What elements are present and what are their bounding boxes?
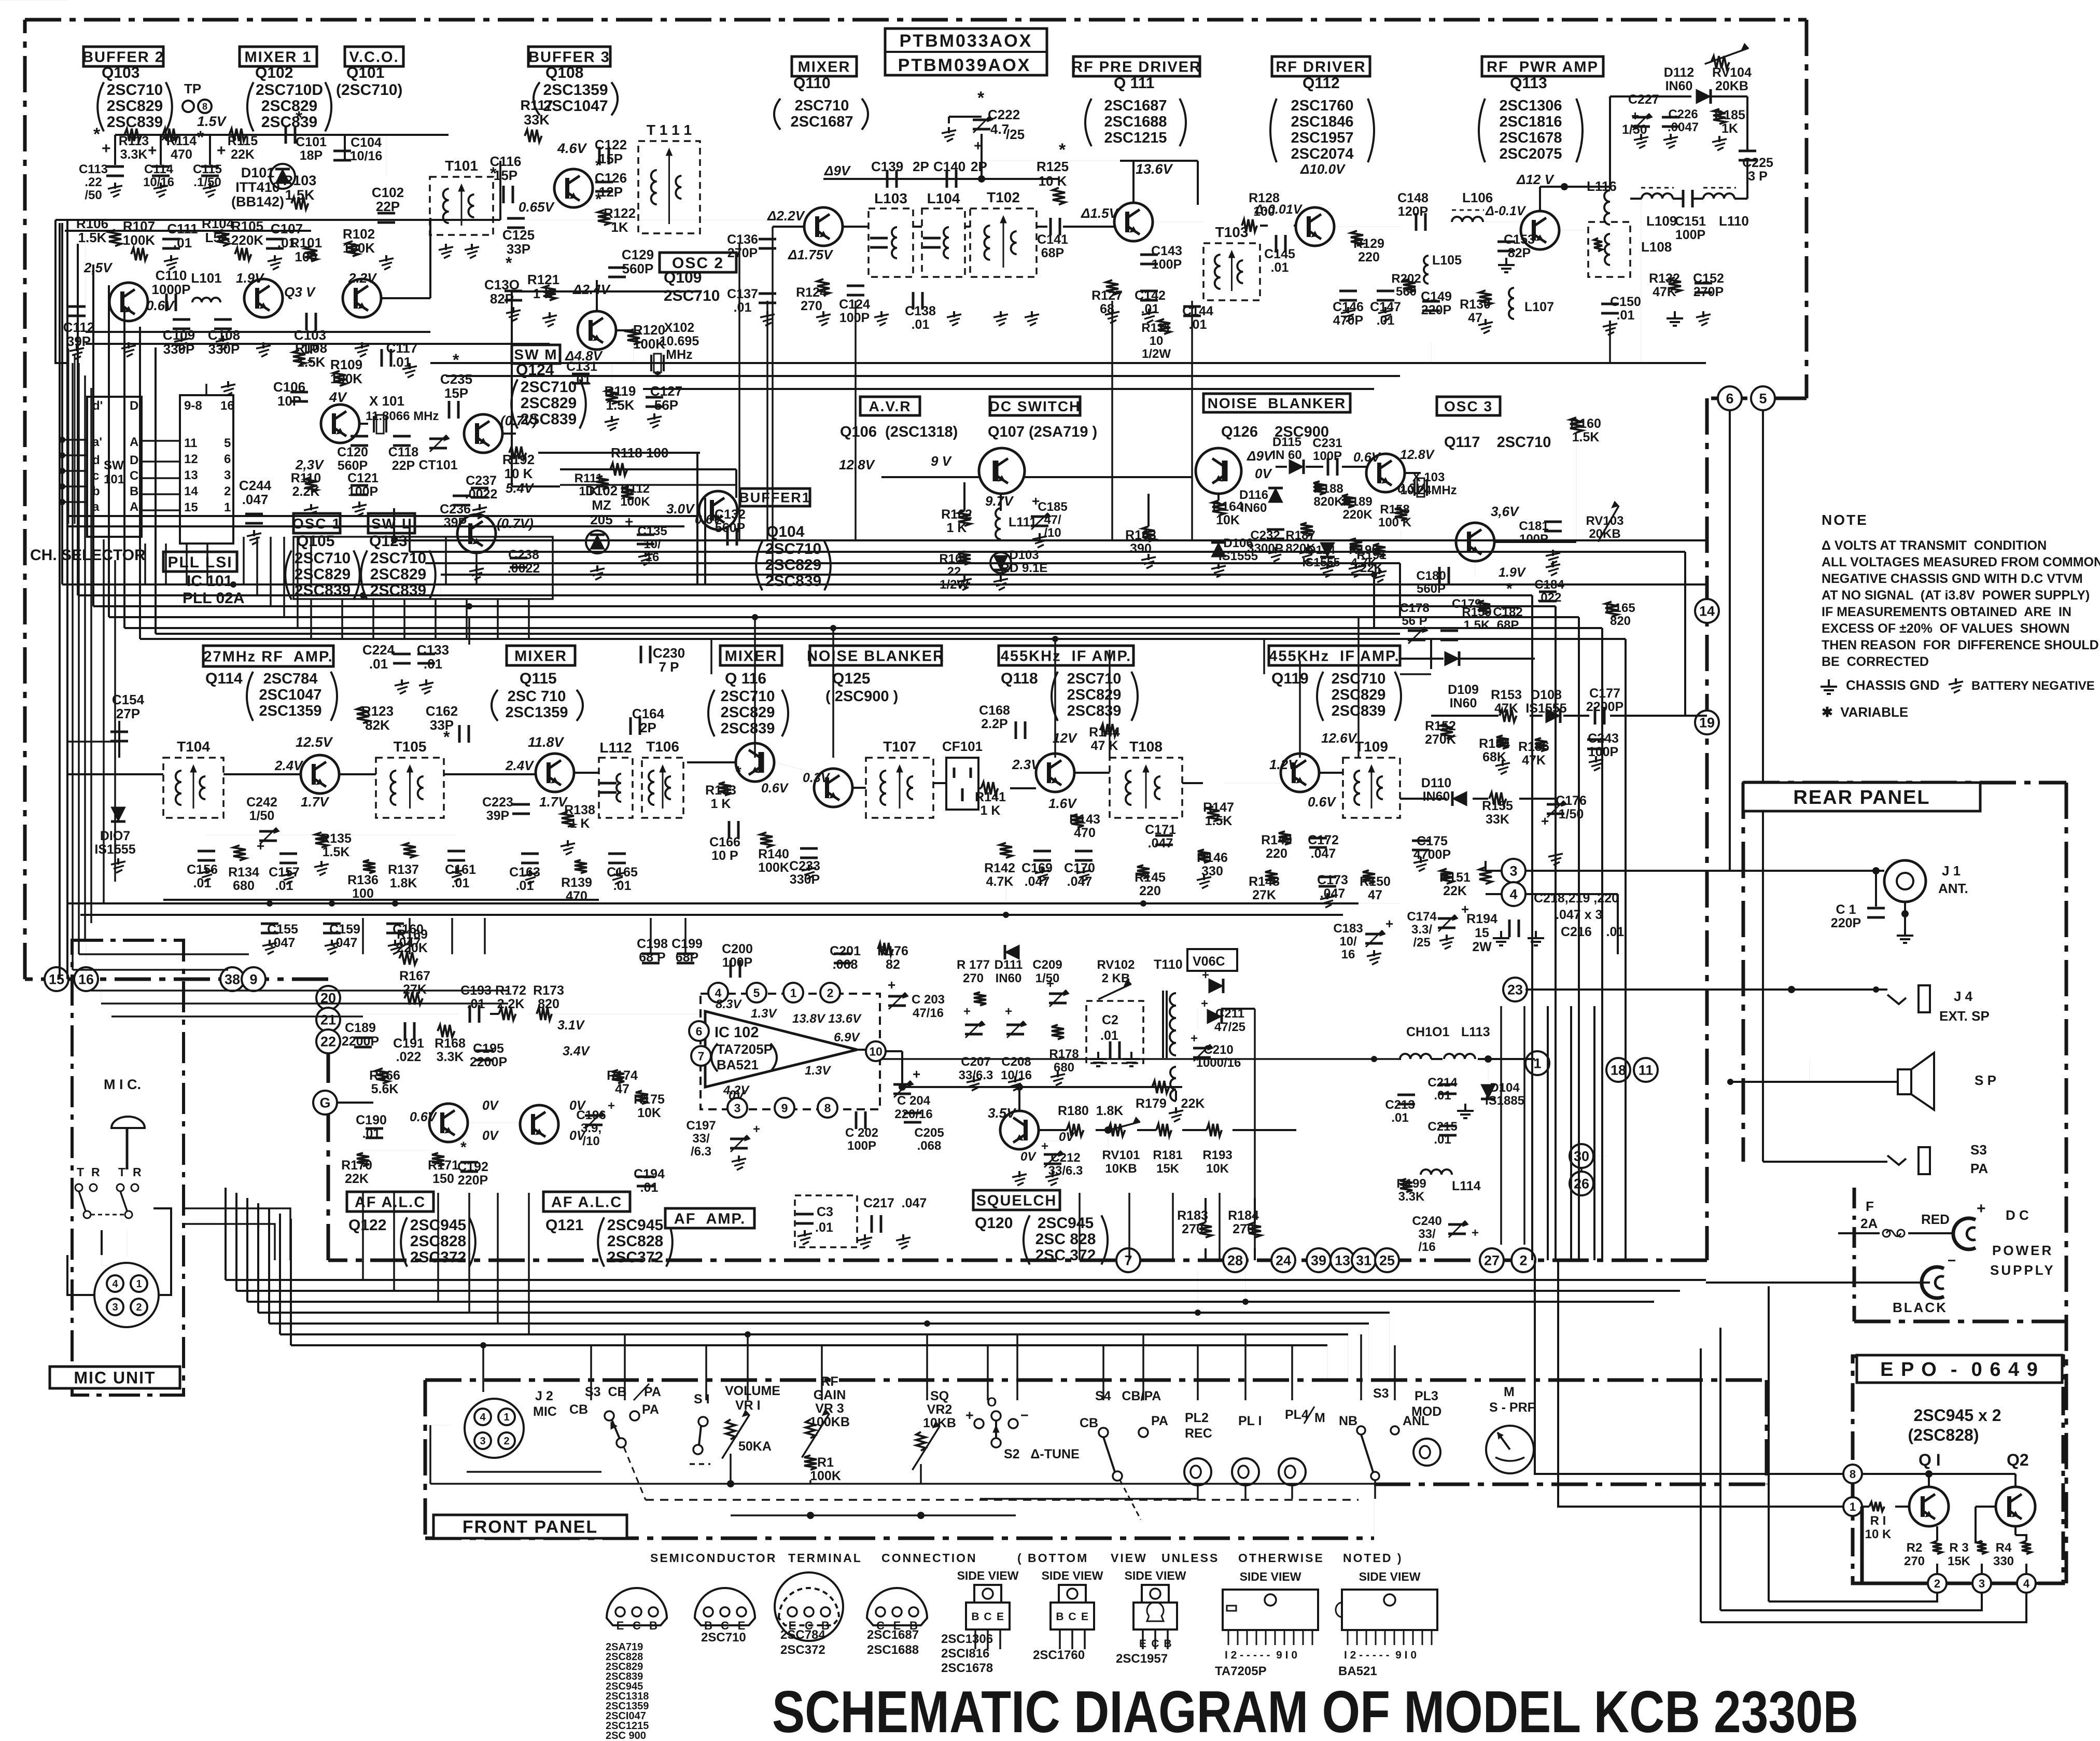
- svg-text:21: 21: [320, 1012, 336, 1028]
- svg-text:R114: R114: [166, 134, 197, 148]
- resistor R188 820K: [1313, 481, 1326, 495]
- svg-text:220K: 220K: [231, 232, 263, 248]
- svg-text:R129: R129: [1353, 236, 1384, 251]
- node connector 2 on bottom border: [1511, 1248, 1535, 1272]
- svg-text:NOISE BLANKER: NOISE BLANKER: [1208, 395, 1347, 411]
- connector DC plus: [1953, 1218, 1976, 1249]
- transformer T101: [430, 177, 493, 235]
- svg-text:b: b: [92, 484, 100, 498]
- svg-text:470: 470: [1074, 826, 1096, 840]
- speaker SP: [1898, 1069, 1911, 1094]
- resistor R150 47: [1363, 870, 1375, 884]
- svg-text:IS1555: IS1555: [1525, 701, 1566, 716]
- resistor R122 1K: [598, 210, 610, 225]
- wire q123 region verticals: [445, 537, 447, 584]
- resistor R190 4.7K: [1350, 538, 1362, 552]
- wire swm long rail: [560, 452, 697, 453]
- capacitor C150 .01: [1601, 303, 1619, 305]
- wire avr verticals: [963, 482, 965, 511]
- svg-text:R193: R193: [1202, 1148, 1232, 1162]
- capacitor C127 56P: [646, 396, 663, 399]
- svg-text:0V: 0V: [482, 1129, 499, 1143]
- svg-text:+: +: [913, 1066, 920, 1082]
- package 2SC784 can: [779, 1588, 839, 1625]
- svg-text:T101: T101: [445, 158, 478, 174]
- svg-text:47: 47: [1368, 888, 1382, 902]
- svg-text:10 K: 10 K: [505, 466, 533, 481]
- diode D111 1N60: [1005, 945, 1019, 959]
- wire epo link from 30: [1593, 1155, 1607, 1157]
- capacitor C126 12P: [595, 181, 613, 184]
- svg-text:2SC829: 2SC829: [1067, 687, 1122, 703]
- capacitor C122 15P: [598, 147, 601, 164]
- svg-text:C216 .01: C216 .01: [1561, 925, 1624, 939]
- svg-text:R185: R185: [1714, 108, 1745, 122]
- svg-text:SQ: SQ: [930, 1389, 949, 1403]
- transistor Q114: [301, 755, 339, 793]
- svg-text:MIC: MIC: [533, 1404, 557, 1419]
- wire DC plus lead: [1908, 1232, 1954, 1234]
- svg-text:Q112: Q112: [1303, 75, 1340, 92]
- svg-text:J 1: J 1: [1942, 863, 1961, 879]
- capacitor C181 100P: [1544, 521, 1562, 523]
- svg-text:2: 2: [503, 1436, 509, 1447]
- svg-text:1: 1: [1850, 1500, 1856, 1513]
- svg-text:2SC710: 2SC710: [664, 287, 720, 304]
- capacitor C152 270P: [1695, 282, 1712, 285]
- svg-text:SUPPLY: SUPPLY: [1990, 1262, 2055, 1278]
- svg-text:*: *: [490, 164, 497, 183]
- capacitor C237 .0022: [471, 487, 488, 490]
- capacitor C197 33/6.3: [730, 1138, 748, 1140]
- svg-text:2SC829: 2SC829: [765, 556, 821, 574]
- svg-text:2.4V: 2.4V: [505, 758, 535, 773]
- svg-text:10 K: 10 K: [1865, 1527, 1892, 1541]
- svg-text:R165: R165: [1605, 601, 1635, 615]
- svg-text:BA521: BA521: [1338, 1664, 1377, 1678]
- resistor R117 33K: [525, 130, 542, 142]
- IC IC102 pin 4: [708, 983, 728, 1002]
- svg-text:3.1V: 3.1V: [557, 1018, 585, 1033]
- svg-text:S I: S I: [694, 1392, 710, 1406]
- svg-text:27: 27: [1484, 1253, 1500, 1269]
- svg-text:0V: 0V: [569, 1098, 586, 1113]
- capacitor C117 .01: [381, 349, 383, 367]
- svg-text:270P: 270P: [727, 246, 758, 260]
- svg-text:0.6V: 0.6V: [695, 512, 723, 527]
- svg-text:R192: R192: [502, 452, 535, 467]
- capacitor C200 100P: [730, 960, 732, 978]
- node connector 2 epo: [1928, 1574, 1947, 1593]
- node connector 3: [1502, 859, 1525, 883]
- svg-text:R2: R2: [1907, 1541, 1923, 1555]
- wire G link: [337, 1102, 373, 1104]
- svg-text:.01: .01: [1617, 308, 1635, 323]
- svg-text:Q107 (2SA719 ): Q107 (2SA719 ): [988, 424, 1097, 440]
- svg-text:R168: R168: [435, 1036, 466, 1051]
- wire epo route from 3: [1720, 1593, 1982, 1610]
- inductor L107: [1509, 288, 1514, 319]
- label box MIXER (Q110): [792, 57, 857, 76]
- svg-text:47/16: 47/16: [913, 1006, 944, 1020]
- node connector 4: [1502, 882, 1525, 906]
- svg-text:100P: 100P: [1675, 228, 1705, 242]
- svg-text:R119: R119: [605, 383, 636, 399]
- capacitor C147 .01: [1377, 290, 1394, 293]
- capacitor C232 3300P: [1267, 528, 1284, 531]
- transistor Q105: [321, 405, 359, 443]
- svg-text:M: M: [1504, 1385, 1515, 1399]
- transformer T103: [1203, 243, 1260, 300]
- transistor Q2: [1996, 1487, 2035, 1526]
- wire buf rails top: [0, 0, 67, 1]
- svg-text:THEN REASON FOR DIFFERENCE S: THEN REASON FOR DIFFERENCE SHOULD: [1822, 638, 2099, 652]
- svg-text:IC 102: IC 102: [715, 1024, 759, 1041]
- svg-text:R150: R150: [1360, 874, 1391, 889]
- svg-text:Q119: Q119: [1271, 670, 1309, 687]
- svg-text:R179 22K: R179 22K: [1136, 1096, 1205, 1111]
- svg-text:C191: C191: [393, 1036, 424, 1051]
- svg-text:C: C: [1068, 1611, 1076, 1623]
- wire main board outline right jog: [1707, 397, 1807, 400]
- wire epo base q1: [1862, 1506, 1869, 1508]
- svg-text:0V: 0V: [482, 1098, 499, 1113]
- transistor Q120: [1000, 1111, 1039, 1149]
- label box SW L: [368, 513, 415, 533]
- wire af mid horiz: [342, 1013, 459, 1014]
- svg-text:NOISE BLANKER: NOISE BLANKER: [807, 648, 945, 664]
- svg-text:C125: C125: [502, 227, 535, 243]
- capacitor C213 .01: [1397, 1094, 1415, 1096]
- note battery negative symbol: [1955, 678, 1957, 685]
- svg-text:R131: R131: [1141, 321, 1171, 335]
- svg-text:.047: .047: [242, 492, 269, 507]
- capacitor C173 .047: [1319, 876, 1336, 879]
- resistor R118 100: [610, 463, 627, 476]
- svg-text:2SC829: 2SC829: [521, 395, 577, 412]
- svg-text:RV101: RV101: [1102, 1148, 1140, 1162]
- svg-text:22: 22: [947, 565, 961, 579]
- resistor R105 220K: [235, 248, 251, 260]
- svg-text:5: 5: [224, 436, 231, 450]
- svg-text:18: 18: [1611, 1063, 1626, 1078]
- svg-text:10.695: 10.695: [660, 334, 699, 349]
- svg-text:*: *: [443, 728, 450, 746]
- svg-text:2SC1957: 2SC1957: [1291, 130, 1354, 146]
- svg-text:A': A': [130, 435, 142, 449]
- svg-text:C171: C171: [1145, 823, 1176, 837]
- varistor RV101 10KB: [1108, 1124, 1125, 1136]
- svg-text:1/50: 1/50: [1622, 122, 1647, 137]
- svg-text:220P: 220P: [1831, 916, 1861, 930]
- svg-text:470: 470: [171, 147, 192, 162]
- svg-text:10K: 10K: [637, 1106, 661, 1120]
- transistor Q108: [554, 169, 593, 207]
- svg-text:Δ12 V: Δ12 V: [1516, 172, 1555, 187]
- svg-text:C162: C162: [426, 703, 458, 719]
- wire mic plug wires: [67, 1255, 94, 1295]
- svg-text:C: C: [130, 469, 138, 483]
- resistor R154 68K: [1496, 735, 1509, 749]
- svg-text:3 P: 3 P: [1748, 169, 1768, 184]
- node connector 25 on bottom border: [1375, 1248, 1399, 1272]
- svg-text:3300P: 3300P: [1247, 541, 1283, 555]
- trimmer C209 1/50: [1049, 993, 1067, 995]
- svg-text:2: 2: [1934, 1577, 1940, 1590]
- capacitor C116 15P: [502, 186, 505, 203]
- svg-text:R169: R169: [397, 927, 428, 942]
- svg-text:C154: C154: [112, 692, 145, 707]
- transformer T104: [163, 758, 223, 818]
- svg-text:D115: D115: [1272, 435, 1301, 449]
- svg-text:R175: R175: [634, 1092, 665, 1107]
- svg-text:Q 116: Q 116: [725, 670, 766, 687]
- svg-text:47/25: 47/25: [1214, 1020, 1245, 1034]
- label box 27MHz RF AMP.: [203, 646, 333, 666]
- wire detector feed: [1400, 658, 1444, 660]
- wire det box: [1430, 638, 1432, 669]
- capacitor C240 33/16: [1448, 1223, 1466, 1226]
- wire EPO-0649 outline: [1853, 1356, 2063, 1583]
- svg-text:V06C: V06C: [1193, 954, 1225, 969]
- wire front panel long inner: [591, 1471, 606, 1472]
- wire osc1 row: [359, 423, 368, 425]
- resistor R171 150: [432, 1153, 444, 1166]
- capacitor C238 .0022: [510, 557, 527, 560]
- svg-text:Q2: Q2: [2007, 1451, 2029, 1469]
- diode D114 1S1555: [1320, 542, 1335, 557]
- node connector 19: [1695, 711, 1719, 734]
- svg-text:38: 38: [225, 972, 240, 987]
- svg-text:11.8066 MHz: 11.8066 MHz: [366, 409, 439, 423]
- svg-text:OSC 1: OSC 1: [292, 516, 341, 532]
- svg-text:C180: C180: [1416, 569, 1446, 583]
- wire Q111 rail: [1120, 160, 1198, 162]
- wire rx input col: [118, 721, 120, 758]
- svg-text:2SC839: 2SC839: [370, 582, 426, 599]
- svg-text:2SC 900: 2SC 900: [606, 1730, 646, 1741]
- svg-text:C181: C181: [1519, 519, 1548, 533]
- svg-text:120P: 120P: [1398, 204, 1428, 219]
- svg-text:10K: 10K: [1206, 1162, 1229, 1176]
- resistor R131 10 1/2W: [1158, 319, 1170, 334]
- svg-text:C175: C175: [1417, 834, 1448, 848]
- node connector 30: [1570, 1144, 1593, 1168]
- svg-text:R135: R135: [320, 831, 352, 846]
- svg-text:14: 14: [184, 484, 198, 498]
- svg-text:BE CORRECTED: BE CORRECTED: [1822, 654, 1929, 669]
- svg-text:C185: C185: [1038, 500, 1067, 514]
- svg-text:MIXER 1: MIXER 1: [244, 49, 312, 65]
- svg-text:1.9V: 1.9V: [236, 270, 265, 286]
- wire epo route from 2: [1769, 1593, 1937, 1601]
- svg-text:1.6V: 1.6V: [1048, 796, 1077, 811]
- svg-text:Δ VOLTS AT TRANSMIT CONDITION: Δ VOLTS AT TRANSMIT CONDITION: [1822, 538, 2047, 553]
- svg-text:33K: 33K: [1486, 812, 1509, 827]
- svg-text:100K: 100K: [620, 495, 650, 509]
- svg-text:560P: 560P: [1417, 582, 1446, 596]
- svg-text:D104: D104: [1490, 1081, 1520, 1095]
- svg-text:5.4V: 5.4V: [506, 480, 535, 496]
- svg-text:10P: 10P: [277, 393, 301, 409]
- wire epo bottom frame: [1862, 1507, 1928, 1583]
- ground T110: [1175, 1107, 1177, 1113]
- svg-text:39P: 39P: [444, 516, 467, 530]
- svg-text:C209: C209: [1032, 958, 1062, 972]
- capacitor C139 2P: [886, 170, 889, 188]
- wire node 3-4 links: [1486, 870, 1502, 872]
- svg-text:3.3K: 3.3K: [437, 1050, 464, 1064]
- svg-text:AT NO SIGNAL (AT i3.8V POWER: AT NO SIGNAL (AT i3.8V POWER SUPPLY): [1822, 588, 2090, 603]
- svg-text:33/: 33/: [692, 1132, 710, 1146]
- svg-text:C 1: C 1: [1836, 902, 1856, 917]
- diode D109 1N60: [1445, 651, 1459, 666]
- wire epo left feeders: [1535, 1260, 1843, 1474]
- wire DC minus lead: [1706, 1282, 1930, 1284]
- svg-text:C192: C192: [457, 1160, 488, 1174]
- transformer T102: [970, 208, 1037, 277]
- svg-text:68P: 68P: [1041, 246, 1064, 260]
- node connector 24 on bottom border: [1271, 1248, 1295, 1272]
- svg-text:NEGATIVE CHASSIS GND WITH D.C: NEGATIVE CHASSIS GND WITH D.C VTVM: [1822, 572, 2083, 586]
- label box PLL LSI: [163, 552, 237, 572]
- resistor R134 680: [233, 845, 246, 860]
- capacitor C202 100P: [855, 1111, 858, 1129]
- svg-text:3: 3: [224, 468, 231, 482]
- resistor R123 82K: [357, 707, 369, 723]
- svg-text:22P: 22P: [376, 199, 400, 214]
- svg-text:C104: C104: [351, 135, 382, 150]
- svg-text:R137: R137: [388, 862, 419, 877]
- resistor R142 4.7K: [1000, 843, 1012, 858]
- svg-text:.01: .01: [734, 300, 752, 315]
- node connector 18: [1606, 1058, 1630, 1082]
- svg-text:101: 101: [104, 472, 124, 486]
- wire mixer1 links: [114, 135, 116, 165]
- svg-text:2SC710: 2SC710: [295, 550, 351, 567]
- svg-text:C153: C153: [1504, 232, 1535, 247]
- wire bus junction dots: [230, 581, 236, 588]
- filter CF101: [946, 758, 978, 810]
- resistor R149 220: [1279, 831, 1291, 845]
- wire main board outline right upper: [1805, 20, 1809, 398]
- svg-text:C207: C207: [961, 1055, 990, 1069]
- svg-text:−: −: [1020, 1408, 1029, 1423]
- svg-text:−: −: [1948, 1252, 1956, 1269]
- svg-text:3: 3: [1979, 1577, 1985, 1590]
- svg-text:C159: C159: [329, 922, 360, 937]
- wire IF strip lower rail A: [67, 902, 1359, 904]
- svg-text:100P: 100P: [1588, 745, 1618, 759]
- svg-text:C184: C184: [1534, 578, 1564, 592]
- svg-text:1000P: 1000P: [151, 282, 190, 297]
- svg-text:C118: C118: [388, 445, 418, 459]
- svg-text:1 K: 1 K: [579, 484, 598, 498]
- capacitor C194 .01: [637, 1176, 654, 1178]
- svg-text:16: 16: [220, 399, 234, 413]
- svg-text:T104: T104: [177, 739, 210, 755]
- capacitor C107 .01: [266, 238, 284, 241]
- svg-text:2SC839: 2SC839: [295, 582, 351, 599]
- svg-text:C 203: C 203: [912, 993, 945, 1007]
- svg-text:S3: S3: [1970, 1142, 1987, 1158]
- svg-text:VOLUME: VOLUME: [725, 1384, 780, 1398]
- capacitor C2 .01 (dashed): [1086, 1001, 1143, 1063]
- svg-text:.01: .01: [516, 879, 534, 893]
- svg-text:12.6V: 12.6V: [1321, 730, 1358, 746]
- label box BUFFER 3: [528, 47, 610, 66]
- svg-text:R160: R160: [1570, 416, 1601, 431]
- svg-text:NOTED ): NOTED ): [1343, 1551, 1403, 1565]
- svg-text:2W: 2W: [1472, 940, 1492, 954]
- svg-text:2SC1359: 2SC1359: [543, 81, 608, 99]
- svg-text:2SC829: 2SC829: [107, 98, 163, 115]
- capacitor C108 330P: [214, 318, 232, 321]
- resistor R173 820: [537, 1008, 552, 1020]
- svg-text:.022: .022: [396, 1050, 422, 1064]
- wire tx interconnect rail: [67, 219, 773, 220]
- svg-text:C178: C178: [1399, 601, 1429, 615]
- resistor R129 220: [1351, 231, 1363, 246]
- svg-text:390: 390: [1130, 541, 1152, 556]
- svg-text:100P: 100P: [847, 1139, 876, 1153]
- svg-text:+: +: [1046, 976, 1054, 991]
- svg-text:2: 2: [1519, 1253, 1527, 1269]
- wire j2 riser: [482, 1345, 484, 1392]
- wire rail 13.6 down: [1197, 161, 1199, 205]
- svg-text:IN60: IN60: [1450, 696, 1477, 711]
- svg-text:PA: PA: [642, 1402, 659, 1417]
- svg-text:RF PRE DRIVER: RF PRE DRIVER: [1072, 59, 1201, 75]
- svg-text:RF PWR AMP: RF PWR AMP: [1487, 59, 1599, 75]
- svg-text:Q125: Q125: [832, 670, 870, 687]
- svg-text:4: 4: [480, 1412, 486, 1423]
- diode D103 RD9.1E: [993, 555, 1008, 570]
- svg-text:1.5V: 1.5V: [197, 114, 227, 129]
- wire mid bus right vertical drops: [1531, 595, 1533, 1260]
- ground T101: [445, 244, 447, 250]
- svg-text:270P: 270P: [1693, 285, 1724, 299]
- svg-text:C102: C102: [372, 185, 404, 200]
- wire left bundle v2: [78, 363, 80, 954]
- svg-text:3.3/: 3.3/: [1411, 923, 1432, 937]
- svg-text:100P: 100P: [348, 484, 378, 499]
- svg-text:100P: 100P: [839, 311, 870, 325]
- label box RF PWR AMP: [1482, 57, 1603, 76]
- svg-text:C121: C121: [347, 471, 379, 485]
- svg-text:33/: 33/: [1418, 1227, 1436, 1241]
- crystal X101: [373, 416, 375, 433]
- resistor R121 1K: [543, 285, 556, 300]
- capacitor C145 .01: [1275, 235, 1278, 253]
- svg-text:50KA: 50KA: [738, 1439, 772, 1454]
- svg-text:2.2K: 2.2K: [292, 484, 320, 499]
- svg-text:47K: 47K: [1522, 753, 1546, 768]
- svg-text:R125: R125: [1037, 159, 1069, 174]
- svg-text:.01: .01: [452, 876, 470, 890]
- capacitor C236 39P: [453, 495, 470, 497]
- resistor R4 330: [2022, 1541, 2031, 1554]
- svg-text:*: *: [595, 156, 602, 175]
- svg-text:C214: C214: [1427, 1076, 1458, 1090]
- svg-text:1.8K: 1.8K: [390, 876, 417, 890]
- trimmer CT101: [429, 438, 447, 440]
- svg-text:9-8: 9-8: [184, 399, 202, 413]
- diode D115 1N60: [1289, 459, 1304, 474]
- svg-text:3.3K: 3.3K: [120, 147, 148, 162]
- svg-text:C240: C240: [1412, 1214, 1441, 1228]
- resistor R192 10K: [509, 447, 526, 459]
